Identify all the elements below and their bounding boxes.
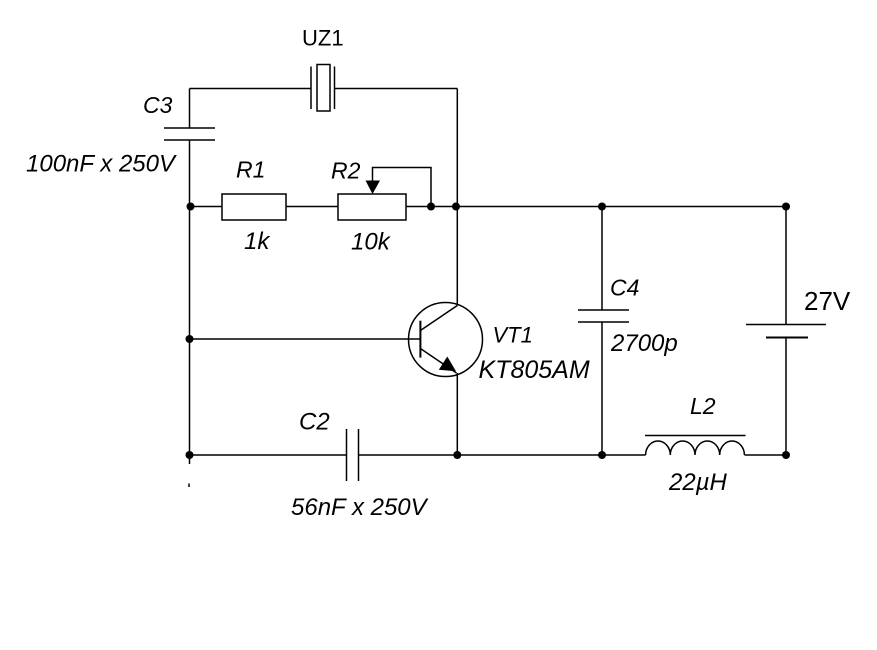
wire base horizontal: [190, 338, 421, 340]
svg-text:2700p: 2700p: [610, 330, 678, 357]
wire top-right horizontal: [335, 88, 458, 90]
node: battery top junction: [782, 203, 790, 211]
node: bottom-left junction: [186, 451, 194, 459]
wire battery branch upper: [785, 207, 787, 325]
wire top-left horizontal: [190, 88, 312, 90]
crystal UZ1: [311, 65, 335, 112]
resistor R1: [222, 194, 286, 220]
wire left vertical main: [189, 140, 191, 464]
wire C4 branch lower: [601, 322, 603, 455]
node: C4 top junction: [598, 203, 606, 211]
wire main horizontal row segment 3: [406, 206, 786, 208]
wire left vertical upper: [189, 89, 191, 128]
capacitor C3: [164, 128, 215, 140]
capacitor C2: [347, 429, 359, 481]
capacitor C4: [578, 310, 629, 322]
svg-text:C3: C3: [143, 92, 173, 118]
svg-text:1k: 1k: [244, 228, 271, 255]
svg-text:27V: 27V: [804, 286, 851, 316]
svg-text:100nF x 250V: 100nF x 250V: [26, 151, 177, 178]
svg-text:L2: L2: [690, 393, 716, 419]
svg-text:10k: 10k: [351, 229, 392, 256]
wire C4 branch upper: [601, 207, 603, 311]
node: C3/R1 junction: [187, 203, 195, 211]
svg-text:C2: C2: [299, 409, 330, 436]
node: emitter bottom junction: [453, 451, 461, 459]
stray mark below bottom-left node: [188, 484, 190, 488]
wire emitter vertical: [456, 373, 458, 455]
node: battery bottom junction: [782, 451, 790, 459]
wire bottom segment 1: [190, 454, 347, 456]
wire bottom segment 2: [359, 454, 646, 456]
svg-text:R2: R2: [331, 158, 361, 184]
wire R2 wiper to node: [373, 168, 432, 207]
svg-text:56nF x 250V: 56nF x 250V: [291, 494, 429, 521]
svg-text:UZ1: UZ1: [302, 26, 344, 51]
inductor L2: [645, 436, 746, 456]
wire battery branch lower: [785, 338, 787, 456]
potentiometer R2: [338, 181, 406, 221]
node: wiper junction: [427, 203, 435, 211]
transistor VT1: [409, 303, 483, 377]
node: C4 bottom junction: [598, 451, 606, 459]
wire bottom segment 3: [745, 454, 787, 456]
wire main horizontal row segment 1: [190, 206, 223, 208]
svg-text:C4: C4: [610, 275, 639, 301]
svg-text:R1: R1: [236, 157, 265, 183]
wire right vertical (crystal to collector): [456, 89, 458, 306]
wire main horizontal row segment 2: [286, 206, 338, 208]
node: crystal column junction: [452, 203, 460, 211]
svg-text:VT1: VT1: [493, 323, 533, 348]
svg-text:22µH: 22µH: [668, 469, 728, 496]
battery 27V: [746, 325, 826, 338]
svg-text:KT805AM: KT805AM: [479, 356, 590, 384]
node: base junction: [186, 335, 194, 343]
